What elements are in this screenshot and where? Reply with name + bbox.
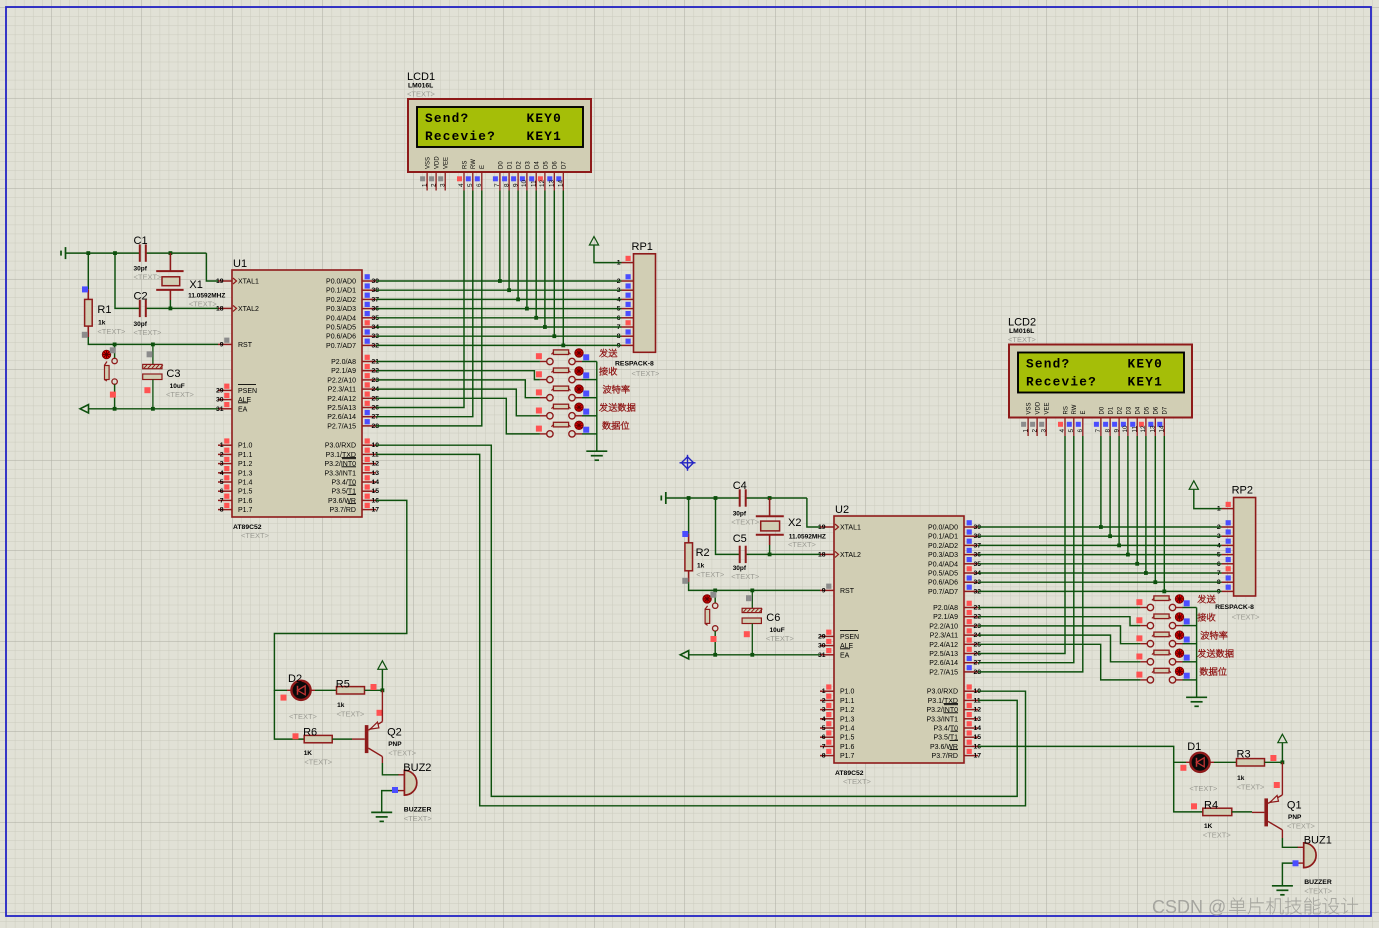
svg-text:1k: 1k: [98, 320, 106, 327]
svg-text:29: 29: [216, 387, 224, 394]
svg-text:Q2: Q2: [387, 727, 402, 739]
svg-text:9: 9: [512, 183, 519, 187]
svg-text:10: 10: [1122, 425, 1129, 433]
svg-text:1K: 1K: [1204, 823, 1213, 830]
svg-text:P2.5/A13: P2.5/A13: [929, 651, 958, 658]
svg-text:5: 5: [822, 725, 826, 732]
svg-text:P2.4/A12: P2.4/A12: [327, 396, 356, 403]
svg-text:4: 4: [822, 716, 826, 723]
svg-text:RESPACK-8: RESPACK-8: [1215, 604, 1254, 611]
svg-text:<TEXT>: <TEXT>: [97, 327, 126, 336]
svg-text:C4: C4: [733, 480, 747, 492]
svg-text:<TEXT>: <TEXT>: [632, 369, 661, 378]
svg-text:LCD2: LCD2: [1008, 317, 1036, 329]
svg-text:P2.0/A8: P2.0/A8: [331, 359, 356, 366]
svg-text:P1.6: P1.6: [238, 498, 253, 505]
svg-text:4: 4: [220, 470, 224, 477]
svg-text:8: 8: [1104, 429, 1111, 433]
svg-text:30pf: 30pf: [134, 266, 148, 273]
svg-text:P1.7: P1.7: [238, 507, 253, 514]
svg-text:P1.3: P1.3: [238, 470, 253, 477]
svg-text:X2: X2: [788, 517, 801, 529]
svg-text:X1: X1: [189, 279, 202, 291]
svg-text:<TEXT>: <TEXT>: [1203, 831, 1232, 840]
svg-text:<TEXT>: <TEXT>: [388, 749, 417, 758]
svg-text:RST: RST: [840, 588, 855, 595]
svg-text:P0.4/AD4: P0.4/AD4: [326, 315, 356, 322]
svg-text:<TEXT>: <TEXT>: [1008, 335, 1037, 344]
svg-text:9: 9: [822, 587, 826, 594]
svg-text:P0.7/AD7: P0.7/AD7: [928, 589, 958, 596]
svg-text:11: 11: [1131, 425, 1138, 432]
svg-text:D7: D7: [562, 161, 568, 169]
svg-text:VDD: VDD: [435, 156, 441, 169]
svg-text:<TEXT>: <TEXT>: [1232, 613, 1261, 622]
svg-text:EA: EA: [840, 652, 850, 659]
svg-text:12: 12: [974, 707, 982, 714]
svg-text:P2.7/A15: P2.7/A15: [327, 423, 356, 430]
svg-text:P0.6/AD6: P0.6/AD6: [326, 334, 356, 341]
svg-text:R5: R5: [336, 679, 350, 691]
svg-text:P1.2: P1.2: [238, 461, 253, 468]
svg-text:Q1: Q1: [1287, 800, 1302, 812]
svg-text:P1.1: P1.1: [238, 452, 253, 459]
svg-text:9: 9: [220, 341, 224, 348]
svg-text:14: 14: [372, 479, 380, 486]
svg-text:C2: C2: [134, 291, 148, 303]
svg-text:29: 29: [818, 633, 826, 640]
svg-text:1: 1: [421, 183, 428, 187]
svg-text:KEY1: KEY1: [1128, 374, 1164, 389]
svg-text:P2.3/A11: P2.3/A11: [328, 387, 356, 394]
svg-text:P0.5/AD5: P0.5/AD5: [326, 325, 356, 332]
svg-text:<TEXT>: <TEXT>: [843, 777, 872, 786]
svg-text:P2.0/A8: P2.0/A8: [933, 605, 958, 612]
svg-text:RESPACK-8: RESPACK-8: [615, 360, 654, 367]
svg-text:PNP: PNP: [388, 741, 402, 748]
svg-text:E: E: [1081, 410, 1087, 414]
svg-text:R1: R1: [97, 304, 111, 316]
svg-text:30: 30: [818, 643, 826, 650]
svg-text:D2: D2: [1118, 406, 1124, 414]
svg-text:6: 6: [476, 183, 483, 187]
svg-text:13: 13: [1150, 425, 1157, 433]
svg-text:1: 1: [1022, 429, 1029, 433]
svg-text:RP1: RP1: [632, 241, 653, 253]
svg-text:RST: RST: [238, 342, 253, 349]
svg-text:D1: D1: [1109, 406, 1115, 414]
svg-text:D0: D0: [1099, 406, 1105, 414]
svg-text:D1: D1: [1187, 741, 1201, 753]
svg-text:PSEN: PSEN: [840, 634, 859, 641]
svg-text:<TEXT>: <TEXT>: [766, 634, 795, 643]
svg-text:12: 12: [539, 179, 546, 187]
svg-text:BUZZER: BUZZER: [1304, 879, 1332, 886]
svg-text:KEY0: KEY0: [1128, 357, 1164, 372]
svg-text:8: 8: [220, 507, 224, 514]
svg-text:KEY0: KEY0: [527, 111, 563, 126]
svg-text:D5: D5: [1144, 406, 1150, 414]
svg-text:8: 8: [822, 753, 826, 760]
svg-text:P0.6/AD6: P0.6/AD6: [928, 580, 958, 587]
svg-text:C5: C5: [733, 533, 747, 545]
svg-text:9: 9: [1113, 429, 1120, 433]
svg-text:C3: C3: [166, 368, 180, 380]
svg-text:<TEXT>: <TEXT>: [241, 531, 270, 540]
svg-text:30pf: 30pf: [733, 565, 747, 572]
svg-text:<TEXT>: <TEXT>: [337, 710, 366, 719]
svg-text:P3.0/RXD: P3.0/RXD: [927, 689, 958, 696]
svg-text:U1: U1: [233, 258, 247, 270]
svg-text:P3.3/INT1: P3.3/INT1: [324, 470, 356, 477]
svg-text:<TEXT>: <TEXT>: [1189, 784, 1218, 793]
svg-text:P0.1/AD1: P0.1/AD1: [326, 288, 356, 295]
svg-text:30pf: 30pf: [134, 321, 148, 328]
svg-text:P0.2/AD2: P0.2/AD2: [326, 297, 356, 304]
svg-text:PNP: PNP: [1288, 814, 1302, 821]
svg-text:<TEXT>: <TEXT>: [788, 540, 817, 549]
svg-text:D6: D6: [1154, 406, 1160, 414]
svg-text:D6: D6: [553, 161, 559, 169]
svg-text:P3.7/RD: P3.7/RD: [932, 753, 958, 760]
svg-text:Send?: Send?: [1026, 357, 1070, 372]
svg-text:5: 5: [1068, 429, 1075, 433]
svg-text:15: 15: [974, 734, 982, 741]
svg-text:VSS: VSS: [426, 157, 432, 169]
svg-text:E: E: [480, 165, 486, 169]
svg-text:D2: D2: [517, 161, 523, 169]
svg-text:KEY1: KEY1: [527, 129, 563, 144]
svg-text:5: 5: [220, 479, 224, 486]
svg-text:<TEXT>: <TEXT>: [189, 300, 218, 309]
svg-text:2: 2: [822, 697, 826, 704]
svg-text:P0.1/AD1: P0.1/AD1: [928, 534, 958, 541]
svg-text:AT89C52: AT89C52: [835, 770, 864, 777]
svg-text:<TEXT>: <TEXT>: [731, 518, 760, 527]
svg-text:AT89C52: AT89C52: [233, 524, 262, 531]
svg-text:P3.7/RD: P3.7/RD: [330, 507, 356, 514]
svg-text:<TEXT>: <TEXT>: [1304, 886, 1333, 895]
svg-text:BUZ2: BUZ2: [403, 762, 431, 774]
svg-text:4: 4: [458, 183, 465, 187]
svg-text:1k: 1k: [697, 563, 705, 570]
svg-text:2: 2: [1031, 429, 1038, 433]
svg-text:P0.4/AD4: P0.4/AD4: [928, 561, 958, 568]
svg-text:13: 13: [974, 716, 982, 723]
svg-text:13: 13: [549, 179, 556, 187]
svg-text:XTAL1: XTAL1: [238, 279, 259, 286]
svg-text:<TEXT>: <TEXT>: [731, 572, 760, 581]
svg-text:10: 10: [521, 179, 528, 187]
svg-text:11: 11: [530, 180, 537, 187]
svg-text:13: 13: [372, 470, 380, 477]
svg-text:P2.2/A10: P2.2/A10: [929, 623, 958, 630]
svg-text:1K: 1K: [304, 750, 313, 757]
svg-text:EA: EA: [238, 406, 248, 413]
svg-text:17: 17: [372, 507, 380, 514]
svg-text:7: 7: [1095, 429, 1102, 433]
svg-text:XTAL1: XTAL1: [840, 525, 861, 532]
svg-text:VEE: VEE: [444, 157, 450, 169]
svg-text:RW: RW: [1072, 404, 1078, 414]
svg-text:8: 8: [503, 183, 510, 187]
svg-text:D5: D5: [543, 161, 549, 169]
svg-text:D4: D4: [535, 161, 541, 169]
svg-text:P2.2/A10: P2.2/A10: [327, 377, 356, 384]
svg-text:15: 15: [372, 488, 380, 495]
svg-text:RP2: RP2: [1232, 485, 1253, 497]
svg-text:4: 4: [1059, 429, 1066, 433]
svg-text:P1.3: P1.3: [840, 716, 855, 723]
svg-text:<TEXT>: <TEXT>: [1287, 822, 1316, 831]
svg-text:R2: R2: [696, 547, 710, 559]
svg-text:10uF: 10uF: [770, 627, 785, 634]
svg-text:14: 14: [1159, 425, 1166, 433]
svg-text:P1.4: P1.4: [840, 726, 855, 733]
svg-text:3: 3: [220, 461, 224, 468]
svg-text:12: 12: [1140, 425, 1147, 433]
svg-text:BUZZER: BUZZER: [404, 806, 432, 813]
svg-text:P1.4: P1.4: [238, 480, 253, 487]
svg-text:XTAL2: XTAL2: [840, 552, 861, 559]
svg-text:<TEXT>: <TEXT>: [696, 570, 725, 579]
svg-text:12: 12: [372, 461, 380, 468]
svg-text:D7: D7: [1163, 406, 1169, 414]
svg-text:D3: D3: [1126, 406, 1132, 414]
svg-text:CSDN @: CSDN @: [1152, 897, 1226, 917]
svg-text:VSS: VSS: [1027, 402, 1033, 414]
svg-text:<TEXT>: <TEXT>: [407, 90, 436, 99]
svg-text:P1.2: P1.2: [840, 707, 855, 714]
svg-text:6: 6: [822, 734, 826, 741]
svg-text:11.0592MHZ: 11.0592MHZ: [188, 293, 225, 300]
svg-text:<TEXT>: <TEXT>: [134, 273, 163, 282]
svg-text:P2.1/A9: P2.1/A9: [933, 614, 958, 621]
svg-text:Send?: Send?: [425, 111, 469, 126]
svg-text:2: 2: [220, 451, 224, 458]
svg-text:30: 30: [216, 397, 224, 404]
svg-text:3: 3: [1040, 429, 1047, 433]
svg-text:1: 1: [220, 442, 224, 449]
svg-text:P0.3/AD3: P0.3/AD3: [928, 552, 958, 559]
svg-text:3: 3: [439, 183, 446, 187]
svg-text:R4: R4: [1204, 800, 1218, 812]
svg-text:P1.5: P1.5: [840, 735, 855, 742]
svg-text:P2.7/A15: P2.7/A15: [929, 669, 958, 676]
svg-text:P2.5/A13: P2.5/A13: [327, 405, 356, 412]
svg-text:RS: RS: [462, 161, 468, 169]
svg-text:<TEXT>: <TEXT>: [404, 814, 433, 823]
svg-text:P2.3/A11: P2.3/A11: [930, 633, 958, 640]
svg-text:C1: C1: [134, 235, 148, 247]
svg-text:D3: D3: [525, 161, 531, 169]
svg-text:R6: R6: [303, 727, 317, 739]
svg-text:P0.0/AD0: P0.0/AD0: [326, 279, 356, 286]
svg-text:5: 5: [467, 183, 474, 187]
svg-text:2: 2: [430, 183, 437, 187]
svg-text:LM016L: LM016L: [408, 83, 433, 90]
svg-text:P2.6/A14: P2.6/A14: [327, 414, 356, 421]
svg-text:7: 7: [494, 183, 501, 187]
svg-text:1k: 1k: [337, 702, 345, 709]
svg-text:P0.5/AD5: P0.5/AD5: [928, 571, 958, 578]
svg-text:14: 14: [558, 179, 565, 187]
svg-text:P1.6: P1.6: [840, 744, 855, 751]
svg-text:XTAL2: XTAL2: [238, 306, 259, 313]
svg-text:D4: D4: [1136, 406, 1142, 414]
svg-text:P1.7: P1.7: [840, 753, 855, 760]
svg-text:D0: D0: [498, 161, 504, 169]
svg-text:P0.3/AD3: P0.3/AD3: [326, 306, 356, 313]
svg-text:10uF: 10uF: [170, 383, 185, 390]
svg-text:14: 14: [974, 725, 982, 732]
svg-text:C6: C6: [766, 612, 780, 624]
svg-text:VDD: VDD: [1036, 401, 1042, 414]
svg-text:P2.4/A12: P2.4/A12: [929, 642, 958, 649]
svg-text:3: 3: [822, 707, 826, 714]
svg-text:P1.1: P1.1: [840, 698, 855, 705]
svg-text:D1: D1: [508, 161, 514, 169]
svg-text:R3: R3: [1237, 749, 1251, 761]
svg-text:7: 7: [822, 743, 826, 750]
svg-text:P0.7/AD7: P0.7/AD7: [326, 343, 356, 350]
svg-text:P3.3/INT1: P3.3/INT1: [926, 716, 958, 723]
svg-text:P2.1/A9: P2.1/A9: [331, 368, 356, 375]
svg-text:6: 6: [220, 488, 224, 495]
svg-text:RS: RS: [1063, 406, 1069, 414]
svg-text:LCD1: LCD1: [407, 71, 435, 83]
svg-text:<TEXT>: <TEXT>: [289, 712, 318, 721]
svg-text:P0.2/AD2: P0.2/AD2: [928, 543, 958, 550]
svg-text:P1.0: P1.0: [840, 689, 855, 696]
svg-text:Recevie?: Recevie?: [425, 129, 496, 144]
svg-text:P2.6/A14: P2.6/A14: [929, 660, 958, 667]
svg-text:P1.5: P1.5: [238, 489, 253, 496]
svg-text:LM016L: LM016L: [1009, 328, 1034, 335]
svg-text:6: 6: [1077, 429, 1084, 433]
svg-text:BUZ1: BUZ1: [1304, 835, 1332, 847]
svg-text:7: 7: [220, 497, 224, 504]
svg-text:<TEXT>: <TEXT>: [166, 390, 195, 399]
svg-text:P3.0/RXD: P3.0/RXD: [325, 443, 356, 450]
svg-text:PSEN: PSEN: [238, 388, 257, 395]
svg-text:D2: D2: [288, 673, 302, 685]
svg-text:<TEXT>: <TEXT>: [1237, 783, 1266, 792]
svg-text:1k: 1k: [1237, 775, 1245, 782]
svg-text:RW: RW: [471, 159, 477, 169]
svg-text:U2: U2: [835, 504, 849, 516]
svg-text:P0.0/AD0: P0.0/AD0: [928, 525, 958, 532]
svg-text:Recevie?: Recevie?: [1026, 374, 1097, 389]
svg-text:VEE: VEE: [1045, 402, 1051, 414]
svg-text:P1.0: P1.0: [238, 443, 253, 450]
svg-text:<TEXT>: <TEXT>: [304, 758, 333, 767]
svg-text:17: 17: [974, 753, 982, 760]
svg-text:<TEXT>: <TEXT>: [134, 328, 163, 337]
svg-text:30pf: 30pf: [733, 511, 747, 518]
svg-text:1: 1: [822, 688, 826, 695]
